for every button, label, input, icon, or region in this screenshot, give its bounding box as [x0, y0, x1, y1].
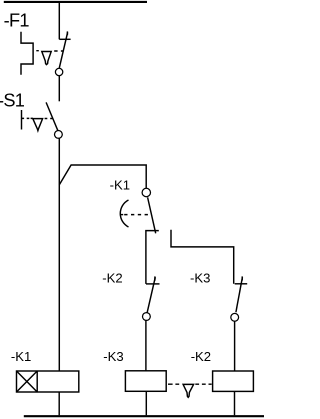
- S1 release triangle: [33, 119, 43, 131]
- F1 release triangle: [42, 52, 51, 65]
- svg-text:-K1: -K1: [110, 178, 130, 193]
- S1 linkage dashes left: [22, 117, 33, 119]
- svg-text:-S1: -S1: [0, 91, 25, 111]
- wire: branch to K1 contact: [59, 165, 146, 188]
- bottom rail N: [24, 415, 265, 417]
- svg-text:-K2: -K2: [102, 271, 122, 286]
- K2 contact top tick: [154, 276, 156, 280]
- S1 contact blade: [46, 102, 58, 130]
- S1 linkage dashes right: [45, 118, 53, 120]
- K1 contact blade: [148, 197, 156, 233]
- wire: K3 contact to K2 coil: [234, 321, 236, 371]
- wire: K2 coil to bottom rail: [234, 391, 236, 415]
- K3 contact top tick: [241, 276, 243, 280]
- K3 contact circle: [231, 313, 239, 321]
- wire: K1 coil to bottom rail: [58, 392, 60, 415]
- wire: K2 contact to K3 coil: [145, 320, 147, 370]
- circuit breaker F1: thermal overload element: [21, 32, 33, 75]
- svg-text:-K3: -K3: [190, 271, 210, 286]
- K1 linkage dashes: [124, 214, 151, 216]
- K1 delayed-action arc: [120, 200, 128, 227]
- K2 contact circle: [143, 313, 151, 321]
- K2 contact blade: [147, 277, 155, 313]
- F1 contact blade: [59, 32, 67, 68]
- K1 contact NC terminal bar: [146, 231, 159, 284]
- interlock dashes between K3 and K2 coils: [168, 383, 212, 385]
- wire: main left column S1 down to K1 coil: [58, 138, 60, 371]
- svg-text:-K1: -K1: [11, 349, 31, 364]
- K2 contact fixed-terminal tick: [146, 283, 160, 285]
- svg-text:-F1: -F1: [4, 10, 30, 30]
- K1 arc tick: [120, 214, 123, 216]
- F1 linkage dashes: [36, 50, 63, 52]
- F1 contact fixed-terminal tick: [59, 38, 70, 40]
- K3 contact blade: [236, 277, 243, 312]
- top supply rail L1: [4, 1, 147, 3]
- svg-text:-K3: -K3: [103, 349, 123, 364]
- F1 contact top tick: [66, 31, 68, 35]
- coil K2 body: [213, 371, 254, 391]
- wire: K3 coil to bottom rail: [145, 391, 147, 415]
- coil K3 body: [125, 371, 166, 392]
- wire: rail to F1 contact: [58, 1, 60, 39]
- pushbutton S1 actuator plunger: [21, 110, 23, 130]
- K1 changeover contact circle: [142, 188, 150, 196]
- coil K1 latching X-box: [17, 371, 38, 392]
- wire: K1 NO terminal to K3 contact branch: [171, 230, 234, 284]
- coil K1 body: [17, 371, 79, 392]
- K3 contact fixed-terminal tick: [235, 283, 248, 285]
- interlock triangle: [183, 384, 194, 397]
- F1 contact circle: [55, 68, 62, 75]
- S1 contact circle: [55, 131, 63, 139]
- wire: F1 to S1: [58, 76, 60, 102]
- svg-text:-K2: -K2: [191, 349, 211, 364]
